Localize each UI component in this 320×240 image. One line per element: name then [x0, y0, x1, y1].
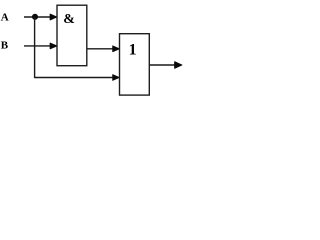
arrowhead branch into OR gate	[113, 75, 120, 81]
wire B input	[24, 45, 53, 47]
svg-text:B: B	[1, 40, 9, 52]
svg-text:&: &	[63, 12, 75, 27]
node junction dot on wire A	[32, 14, 37, 19]
wire vertical branch from node	[34, 17, 36, 78]
arrowhead B into AND gate	[50, 43, 57, 49]
svg-text:A: A	[1, 11, 9, 23]
arrowhead A into AND gate	[50, 14, 57, 20]
wire A input	[24, 16, 53, 18]
svg-text:1: 1	[129, 42, 137, 59]
AND gate U1 box	[57, 5, 87, 65]
wire output	[150, 64, 176, 66]
arrowhead output	[175, 62, 182, 69]
OR gate U2 box	[120, 34, 150, 95]
arrowhead AND output into OR gate	[113, 46, 120, 52]
wire AND output to OR input	[87, 48, 114, 50]
wire branch horizontal to OR lower input	[35, 77, 113, 79]
